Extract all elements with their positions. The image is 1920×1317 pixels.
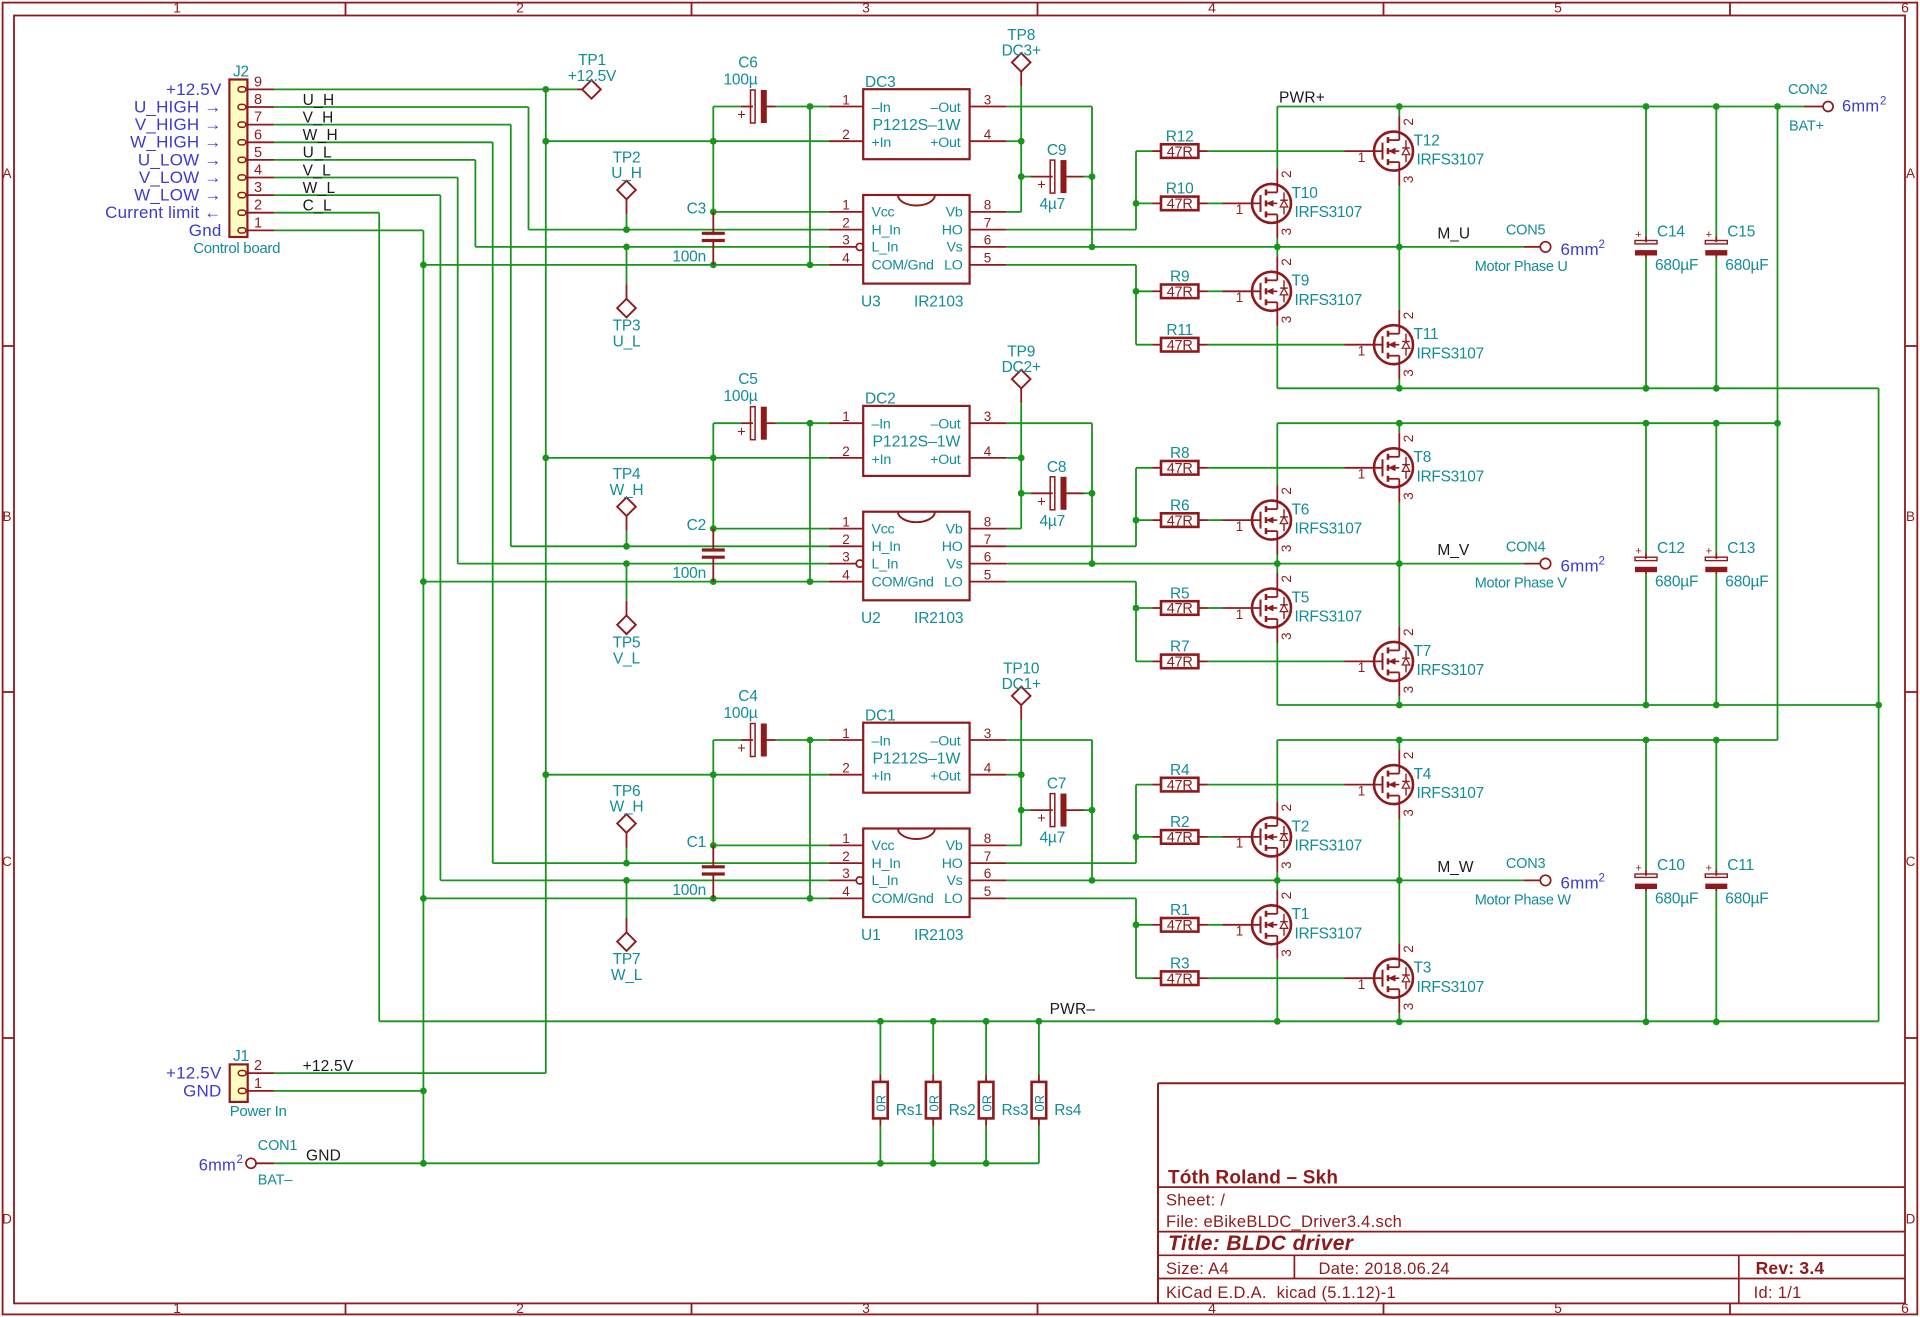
svg-text:2: 2 <box>254 1058 262 1074</box>
svg-text:100µ: 100µ <box>724 388 758 405</box>
svg-text:TP9: TP9 <box>1007 344 1035 361</box>
svg-text:1: 1 <box>1236 519 1244 534</box>
svg-text:D: D <box>1906 1212 1916 1227</box>
svg-text:+: + <box>737 741 745 757</box>
svg-text:+In: +In <box>872 452 892 468</box>
svg-text:3: 3 <box>1279 632 1294 640</box>
svg-text:Rs3: Rs3 <box>1002 1102 1029 1119</box>
svg-text:3: 3 <box>984 726 992 741</box>
svg-text:4: 4 <box>984 127 992 142</box>
svg-text:U1: U1 <box>861 927 881 944</box>
svg-text:Vb: Vb <box>946 838 963 854</box>
svg-text:Current limit ←: Current limit ← <box>105 203 221 222</box>
svg-text:IRFS3107: IRFS3107 <box>1295 521 1362 538</box>
svg-text:L_In: L_In <box>872 556 899 572</box>
svg-text:3: 3 <box>254 180 262 196</box>
svg-text:IR2103: IR2103 <box>914 927 963 944</box>
svg-text:4µ7: 4µ7 <box>1040 830 1066 847</box>
svg-text:V_HIGH →: V_HIGH → <box>135 115 222 134</box>
svg-text:1: 1 <box>1236 202 1244 217</box>
svg-text:C2: C2 <box>687 517 706 534</box>
svg-text:47R: 47R <box>1167 655 1193 671</box>
svg-text:5: 5 <box>984 884 992 899</box>
svg-text:P1212S–1W: P1212S–1W <box>873 750 961 767</box>
svg-text:C7: C7 <box>1047 776 1066 793</box>
svg-text:3: 3 <box>842 866 850 881</box>
svg-text:680µF: 680µF <box>1725 257 1768 274</box>
svg-text:DC3: DC3 <box>865 74 896 91</box>
svg-text:2: 2 <box>842 127 850 142</box>
svg-text:HO: HO <box>942 222 963 238</box>
svg-text:2: 2 <box>1599 239 1605 251</box>
svg-text:T1: T1 <box>1292 906 1310 923</box>
svg-text:5: 5 <box>254 145 262 161</box>
svg-text:CON4: CON4 <box>1506 539 1546 555</box>
svg-text:+12.5V: +12.5V <box>166 1064 222 1083</box>
svg-text:J2: J2 <box>233 64 249 81</box>
svg-text:100n: 100n <box>672 248 706 265</box>
svg-text:–Out: –Out <box>931 417 961 433</box>
svg-text:DC1: DC1 <box>865 708 896 725</box>
svg-text:6mm: 6mm <box>199 1156 236 1174</box>
svg-text:V_L: V_L <box>303 162 332 179</box>
svg-text:680µF: 680µF <box>1655 890 1698 907</box>
svg-text:Vcc: Vcc <box>872 838 895 854</box>
svg-text:T3: T3 <box>1414 960 1432 977</box>
svg-text:4µ7: 4µ7 <box>1040 196 1066 213</box>
svg-text:R2: R2 <box>1170 814 1189 831</box>
svg-text:3: 3 <box>842 549 850 564</box>
svg-text:Date: 2018.06.24: Date: 2018.06.24 <box>1319 1260 1450 1278</box>
svg-text:47R: 47R <box>1167 513 1193 529</box>
svg-text:Rev: 3.4: Rev: 3.4 <box>1756 1258 1825 1278</box>
svg-text:Vs: Vs <box>946 240 962 256</box>
svg-text:2: 2 <box>1279 258 1294 266</box>
svg-text:5: 5 <box>984 567 992 582</box>
svg-text:8: 8 <box>984 514 992 529</box>
svg-text:T4: T4 <box>1414 766 1432 783</box>
svg-text:1: 1 <box>1358 150 1366 165</box>
svg-text:U_L: U_L <box>303 145 332 162</box>
svg-text:R3: R3 <box>1170 956 1189 973</box>
svg-text:W_H: W_H <box>610 482 644 499</box>
svg-text:+: + <box>1037 811 1045 827</box>
svg-text:2: 2 <box>842 215 850 230</box>
svg-text:5: 5 <box>1554 1300 1562 1316</box>
svg-text:T8: T8 <box>1414 449 1432 466</box>
svg-text:U_L: U_L <box>613 334 641 351</box>
svg-text:Motor Phase W: Motor Phase W <box>1475 892 1572 908</box>
svg-text:Sheet: /: Sheet: / <box>1166 1192 1225 1210</box>
svg-text:6mm: 6mm <box>1561 557 1599 576</box>
svg-text:C8: C8 <box>1047 459 1066 476</box>
svg-text:2: 2 <box>842 761 850 776</box>
svg-text:47R: 47R <box>1167 338 1193 354</box>
svg-text:3: 3 <box>984 409 992 424</box>
svg-text:A: A <box>2 166 11 181</box>
svg-text:R7: R7 <box>1170 639 1189 656</box>
svg-text:3: 3 <box>862 0 870 16</box>
svg-text:3: 3 <box>1401 492 1416 500</box>
svg-text:W_H: W_H <box>303 127 338 144</box>
svg-text:6mm: 6mm <box>1561 240 1599 259</box>
svg-text:TP10: TP10 <box>1003 660 1040 677</box>
svg-text:2: 2 <box>842 532 850 547</box>
svg-text:V_L: V_L <box>613 650 641 667</box>
svg-text:3: 3 <box>984 93 992 108</box>
svg-text:P1212S–1W: P1212S–1W <box>873 117 961 134</box>
svg-text:47R: 47R <box>1167 197 1193 213</box>
svg-text:R5: R5 <box>1170 585 1189 602</box>
svg-text:4: 4 <box>254 163 262 179</box>
svg-text:4: 4 <box>984 761 992 776</box>
svg-text:6: 6 <box>254 127 262 143</box>
svg-text:Rs2: Rs2 <box>949 1102 976 1119</box>
svg-text:H_In: H_In <box>872 856 901 872</box>
svg-text:1: 1 <box>842 726 850 741</box>
svg-text:A: A <box>1906 166 1915 181</box>
svg-text:U3: U3 <box>861 294 881 311</box>
svg-text:W_HIGH →: W_HIGH → <box>130 133 221 152</box>
svg-text:Rs1: Rs1 <box>896 1102 923 1119</box>
svg-text:Rs4: Rs4 <box>1054 1102 1082 1119</box>
svg-text:2: 2 <box>1599 556 1605 568</box>
svg-text:+: + <box>737 424 745 440</box>
svg-text:CON3: CON3 <box>1506 856 1546 872</box>
svg-text:T9: T9 <box>1292 273 1310 290</box>
svg-text:3: 3 <box>1279 545 1294 553</box>
svg-text:680µF: 680µF <box>1725 574 1768 591</box>
svg-text:7: 7 <box>984 215 992 230</box>
svg-text:+In: +In <box>872 135 892 151</box>
svg-text:–In: –In <box>872 417 891 433</box>
svg-text:C10: C10 <box>1657 857 1685 874</box>
svg-text:IRFS3107: IRFS3107 <box>1295 925 1362 942</box>
svg-text:C4: C4 <box>738 688 758 705</box>
svg-text:1: 1 <box>1358 660 1366 675</box>
svg-text:6: 6 <box>1901 1300 1909 1316</box>
svg-text:Gnd: Gnd <box>189 221 222 240</box>
svg-text:TP3: TP3 <box>613 318 641 335</box>
svg-text:C15: C15 <box>1727 224 1755 241</box>
svg-text:+: + <box>1635 546 1641 558</box>
svg-text:R12: R12 <box>1166 128 1194 145</box>
svg-text:6mm: 6mm <box>1561 873 1599 892</box>
svg-text:DC2+: DC2+ <box>1002 359 1041 376</box>
svg-text:4: 4 <box>842 884 850 899</box>
svg-text:1: 1 <box>1358 467 1366 482</box>
svg-text:C: C <box>2 854 12 869</box>
svg-text:C11: C11 <box>1727 857 1754 874</box>
svg-text:0R: 0R <box>1032 1095 1047 1112</box>
svg-text:IRFS3107: IRFS3107 <box>1417 979 1484 996</box>
svg-text:1: 1 <box>1236 836 1244 851</box>
svg-text:1: 1 <box>254 1076 262 1092</box>
svg-text:1: 1 <box>173 1300 181 1316</box>
svg-text:IRFS3107: IRFS3107 <box>1417 468 1484 485</box>
svg-text:6: 6 <box>984 549 992 564</box>
svg-text:LO: LO <box>944 891 963 907</box>
svg-text:H_In: H_In <box>872 222 901 238</box>
svg-text:5: 5 <box>1554 0 1562 16</box>
svg-text:IR2103: IR2103 <box>914 294 963 311</box>
svg-text:C5: C5 <box>738 371 757 388</box>
svg-text:T5: T5 <box>1292 589 1310 606</box>
svg-text:File: eBikeBLDC_Driver3.4.sch: File: eBikeBLDC_Driver3.4.sch <box>1166 1213 1402 1231</box>
svg-text:7: 7 <box>984 532 992 547</box>
svg-text:TP4: TP4 <box>613 466 641 483</box>
svg-text:3: 3 <box>1279 228 1294 236</box>
svg-text:+Out: +Out <box>930 769 961 785</box>
svg-text:4: 4 <box>1208 1300 1216 1316</box>
svg-text:100µ: 100µ <box>724 705 758 722</box>
svg-text:PWR+: PWR+ <box>1279 89 1325 106</box>
svg-text:1: 1 <box>1358 977 1366 992</box>
svg-text:+: + <box>1706 229 1712 241</box>
svg-text:TP6: TP6 <box>613 783 641 800</box>
svg-text:C13: C13 <box>1727 540 1755 557</box>
svg-text:IRFS3107: IRFS3107 <box>1417 152 1484 169</box>
svg-text:4: 4 <box>1208 0 1216 16</box>
svg-text:TP1: TP1 <box>578 52 606 69</box>
svg-text:PWR–: PWR– <box>1050 1001 1096 1018</box>
svg-text:3: 3 <box>842 233 850 248</box>
svg-text:3: 3 <box>862 1300 870 1316</box>
svg-text:1: 1 <box>1236 924 1244 939</box>
svg-text:47R: 47R <box>1167 778 1193 794</box>
svg-text:T12: T12 <box>1414 133 1440 150</box>
svg-text:+: + <box>1635 862 1641 874</box>
svg-text:9: 9 <box>254 74 262 90</box>
svg-text:L_In: L_In <box>872 240 899 256</box>
svg-text:T7: T7 <box>1414 643 1432 660</box>
svg-text:–Out: –Out <box>931 100 961 116</box>
svg-text:1: 1 <box>173 0 181 16</box>
svg-text:DC1+: DC1+ <box>1002 676 1041 693</box>
svg-text:–In: –In <box>872 733 891 749</box>
svg-text:0R: 0R <box>874 1095 889 1112</box>
svg-text:680µF: 680µF <box>1655 257 1698 274</box>
svg-text:2: 2 <box>1880 96 1886 108</box>
svg-text:W_L: W_L <box>303 180 336 197</box>
svg-text:+In: +In <box>872 769 892 785</box>
svg-text:2: 2 <box>516 0 524 16</box>
svg-text:IRFS3107: IRFS3107 <box>1417 345 1484 362</box>
svg-text:Vb: Vb <box>946 521 963 537</box>
svg-text:R1: R1 <box>1170 902 1189 919</box>
svg-text:3: 3 <box>1401 809 1416 817</box>
svg-text:LO: LO <box>944 574 963 590</box>
svg-text:T11: T11 <box>1414 326 1439 343</box>
svg-text:8: 8 <box>984 831 992 846</box>
svg-text:+: + <box>1037 494 1045 510</box>
svg-text:C6: C6 <box>738 55 757 72</box>
svg-text:2: 2 <box>1401 945 1416 953</box>
svg-text:4: 4 <box>842 251 850 266</box>
svg-text:1: 1 <box>254 215 262 231</box>
svg-text:8: 8 <box>254 92 262 108</box>
svg-text:KiCad E.D.A. kicad (5.1.12)-1: KiCad E.D.A. kicad (5.1.12)-1 <box>1166 1284 1396 1302</box>
svg-text:CON2: CON2 <box>1788 82 1828 98</box>
svg-text:4: 4 <box>984 444 992 459</box>
svg-text:COM/Gnd: COM/Gnd <box>872 258 934 274</box>
svg-text:+: + <box>1706 546 1712 558</box>
svg-text:2: 2 <box>237 1154 243 1166</box>
svg-text:R8: R8 <box>1170 445 1189 462</box>
svg-text:1: 1 <box>842 198 850 213</box>
svg-text:1: 1 <box>842 831 850 846</box>
svg-text:6: 6 <box>984 233 992 248</box>
svg-text:680µF: 680µF <box>1655 574 1698 591</box>
svg-text:8: 8 <box>984 198 992 213</box>
svg-text:TP5: TP5 <box>613 634 641 651</box>
svg-text:U_H: U_H <box>611 165 641 182</box>
svg-text:TP7: TP7 <box>613 951 641 968</box>
svg-text:D: D <box>2 1212 12 1227</box>
svg-text:3: 3 <box>1401 369 1416 377</box>
svg-text:TP8: TP8 <box>1007 27 1035 44</box>
svg-text:H_In: H_In <box>872 539 901 555</box>
svg-text:–In: –In <box>872 100 891 116</box>
svg-text:4: 4 <box>842 567 850 582</box>
svg-text:L_In: L_In <box>872 873 899 889</box>
svg-text:HO: HO <box>942 539 963 555</box>
svg-text:Motor Phase V: Motor Phase V <box>1475 576 1568 592</box>
svg-text:M_V: M_V <box>1437 542 1470 559</box>
svg-text:CON5: CON5 <box>1506 223 1546 239</box>
svg-text:C3: C3 <box>687 200 706 217</box>
svg-text:GND: GND <box>183 1081 221 1100</box>
svg-text:V_LOW →: V_LOW → <box>139 168 222 187</box>
svg-text:3: 3 <box>1279 316 1294 324</box>
svg-text:DC3+: DC3+ <box>1002 42 1041 59</box>
svg-text:P1212S–1W: P1212S–1W <box>873 434 961 451</box>
svg-text:IRFS3107: IRFS3107 <box>1295 292 1362 309</box>
svg-text:IRFS3107: IRFS3107 <box>1295 204 1362 221</box>
svg-text:47R: 47R <box>1167 918 1193 934</box>
svg-text:C12: C12 <box>1657 540 1685 557</box>
svg-text:100n: 100n <box>672 882 706 899</box>
svg-text:R10: R10 <box>1166 181 1194 198</box>
svg-text:47R: 47R <box>1167 830 1193 846</box>
svg-text:V_H: V_H <box>303 109 334 126</box>
svg-text:100n: 100n <box>672 565 706 582</box>
svg-text:C_L: C_L <box>303 198 332 215</box>
svg-text:1: 1 <box>1358 344 1366 359</box>
svg-text:2: 2 <box>842 849 850 864</box>
svg-text:+12.5V: +12.5V <box>303 1058 354 1075</box>
svg-text:W_LOW →: W_LOW → <box>134 186 221 205</box>
svg-text:47R: 47R <box>1167 144 1193 160</box>
svg-text:2: 2 <box>1279 487 1294 495</box>
svg-text:U2: U2 <box>861 610 881 627</box>
svg-text:2: 2 <box>1401 752 1416 760</box>
svg-text:47R: 47R <box>1167 285 1193 301</box>
svg-text:GND: GND <box>306 1147 341 1164</box>
svg-text:2: 2 <box>1279 892 1294 900</box>
svg-text:T2: T2 <box>1292 818 1310 835</box>
svg-text:+: + <box>1635 229 1641 241</box>
svg-text:U_HIGH →: U_HIGH → <box>134 97 222 116</box>
svg-text:47R: 47R <box>1167 461 1193 477</box>
svg-text:C1: C1 <box>687 834 706 851</box>
svg-text:U_LOW →: U_LOW → <box>138 150 222 169</box>
svg-text:BAT+: BAT+ <box>1789 119 1824 135</box>
svg-text:Motor Phase U: Motor Phase U <box>1475 259 1568 275</box>
svg-text:T10: T10 <box>1292 185 1319 202</box>
svg-text:R4: R4 <box>1170 762 1190 779</box>
svg-text:M_W: M_W <box>1437 859 1474 876</box>
svg-text:6: 6 <box>1901 0 1909 16</box>
svg-text:47R: 47R <box>1167 971 1193 987</box>
svg-text:T6: T6 <box>1292 502 1310 519</box>
svg-text:IRFS3107: IRFS3107 <box>1295 838 1362 855</box>
svg-text:6: 6 <box>984 866 992 881</box>
svg-text:W_L: W_L <box>611 967 643 984</box>
svg-text:–Out: –Out <box>931 733 961 749</box>
svg-text:+: + <box>1037 178 1045 194</box>
svg-text:IR2103: IR2103 <box>914 610 963 627</box>
svg-text:5: 5 <box>984 251 992 266</box>
svg-text:HO: HO <box>942 856 963 872</box>
svg-text:COM/Gnd: COM/Gnd <box>872 891 934 907</box>
svg-text:U_H: U_H <box>303 92 335 109</box>
svg-text:IRFS3107: IRFS3107 <box>1417 662 1484 679</box>
svg-text:7: 7 <box>984 849 992 864</box>
svg-text:+: + <box>737 108 745 124</box>
svg-text:1: 1 <box>1236 290 1244 305</box>
svg-text:3: 3 <box>1279 949 1294 957</box>
svg-text:1: 1 <box>1236 607 1244 622</box>
svg-text:C9: C9 <box>1047 142 1066 159</box>
svg-text:Vs: Vs <box>946 873 962 889</box>
svg-text:3: 3 <box>1401 686 1416 694</box>
svg-text:Vs: Vs <box>946 556 962 572</box>
svg-text:47R: 47R <box>1167 601 1193 617</box>
svg-text:LO: LO <box>944 258 963 274</box>
svg-text:1: 1 <box>1358 783 1366 798</box>
svg-text:2: 2 <box>1279 170 1294 178</box>
svg-text:3: 3 <box>1401 1003 1416 1011</box>
svg-text:3: 3 <box>1401 176 1416 184</box>
svg-text:100µ: 100µ <box>724 72 758 89</box>
svg-text:2: 2 <box>1401 312 1416 320</box>
svg-text:7: 7 <box>254 110 262 126</box>
svg-text:W_H: W_H <box>610 799 644 816</box>
svg-text:Power In: Power In <box>230 1103 287 1120</box>
svg-text:IRFS3107: IRFS3107 <box>1295 609 1362 626</box>
svg-text:0R: 0R <box>926 1095 941 1112</box>
svg-text:Control board: Control board <box>193 240 280 257</box>
svg-text:DC2: DC2 <box>865 391 896 408</box>
svg-text:0R: 0R <box>979 1095 994 1112</box>
svg-text:3: 3 <box>1279 861 1294 869</box>
svg-text:Title: BLDC driver: Title: BLDC driver <box>1168 1232 1355 1255</box>
svg-text:Size: A4: Size: A4 <box>1166 1260 1229 1278</box>
svg-text:+Out: +Out <box>930 135 961 151</box>
svg-text:2: 2 <box>1599 872 1605 884</box>
svg-text:CON1: CON1 <box>258 1138 298 1154</box>
svg-text:+: + <box>1706 862 1712 874</box>
svg-text:COM/Gnd: COM/Gnd <box>872 574 934 590</box>
svg-text:680µF: 680µF <box>1725 890 1768 907</box>
svg-text:2: 2 <box>1401 628 1416 636</box>
svg-text:6mm: 6mm <box>1842 98 1879 116</box>
svg-text:R9: R9 <box>1170 269 1189 286</box>
svg-text:2: 2 <box>254 198 262 214</box>
svg-text:M_U: M_U <box>1437 226 1470 243</box>
svg-text:2: 2 <box>516 1300 524 1316</box>
